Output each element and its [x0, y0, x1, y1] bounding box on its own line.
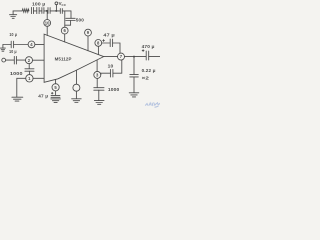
- capacitor 1000p plates: [94, 88, 104, 91]
- svg-text:7: 7: [120, 54, 123, 59]
- capacitor 10u (input 1) plates: [11, 41, 13, 48]
- svg-text:5: 5: [54, 85, 57, 90]
- wire (output to 0.22u): [133, 57, 135, 75]
- wire (rail to pin 10): [46, 11, 48, 20]
- wire (amp to pin 5): [55, 79, 57, 83]
- wire (pin4 to amp): [35, 43, 44, 45]
- wire (output to right edge): [149, 56, 160, 58]
- node (0.22u junction): [133, 56, 135, 58]
- pin 9: [85, 29, 92, 36]
- svg-text:470 μ: 470 μ: [142, 44, 155, 49]
- pin 7: [118, 53, 125, 60]
- svg-text:3: 3: [96, 73, 99, 78]
- pin 6: [61, 27, 68, 34]
- capacitor 100u plates: [31, 7, 33, 13]
- svg-text:10: 10: [108, 64, 114, 69]
- wire (10u to pin3): [101, 73, 111, 75]
- ground (pin5): [51, 99, 61, 103]
- capacitor 0.22u plates: [130, 74, 139, 77]
- svg-text:CC: CC: [62, 3, 67, 7]
- pin 8: [95, 40, 102, 47]
- wire (amp to pin 9): [87, 36, 89, 51]
- wire (1000p to ground): [98, 90, 100, 100]
- wire (ground to resistor): [13, 10, 22, 12]
- capacitor (rail pair C): [42, 8, 44, 14]
- svg-text:10: 10: [45, 21, 50, 26]
- Vcc terminal: [55, 2, 58, 11]
- wire (amp to pin 3): [96, 60, 98, 72]
- plus (47u pin5 polarity): [51, 92, 53, 94]
- ground (pin1): [12, 97, 23, 101]
- svg-text:6: 6: [63, 28, 66, 33]
- pin 2: [26, 57, 33, 64]
- handwriting (faint blue, bottom right): [146, 103, 160, 108]
- svg-text:9: 9: [87, 30, 90, 35]
- wire (pin6 to amp): [64, 34, 66, 42]
- pin 4: [28, 41, 35, 48]
- plus (470u polarity): [142, 50, 144, 52]
- node (pin10 junction): [46, 10, 48, 12]
- capacitor 10u (input 2) plates: [14, 56, 16, 64]
- svg-text:2: 2: [28, 58, 31, 63]
- wire (pin3 to 1000p): [96, 78, 98, 87]
- wire (0.22u to ground): [133, 77, 135, 93]
- capacitor 47u (pin5) plates: [51, 95, 60, 97]
- wire (pin10 to amp): [46, 26, 48, 35]
- svg-text:47 μ: 47 μ: [38, 93, 48, 98]
- capacitor (rail pair D): [48, 8, 50, 14]
- capacitor 10u plates: [110, 69, 113, 77]
- wire (47u to output node): [113, 43, 120, 53]
- capacitor (rail pair E): [60, 9, 62, 14]
- wire (to pin 2): [16, 59, 25, 61]
- svg-text:×2: ×2: [142, 75, 150, 80]
- capacitor (rail pair B): [37, 7, 39, 13]
- ground (input 1): [0, 45, 5, 52]
- pin (unnumbered): [73, 84, 80, 91]
- ground (blank pin): [72, 99, 82, 103]
- ground (0.22u): [129, 93, 139, 97]
- wire (pin5 to 47u): [55, 91, 57, 95]
- svg-text:1000: 1000: [10, 71, 23, 76]
- pin 5: [52, 84, 59, 91]
- wire (500p to pin6 net): [65, 21, 71, 26]
- ground (top-left supply filter): [10, 11, 17, 18]
- wire (amp to blank pin): [76, 70, 78, 84]
- wire (input 1): [3, 44, 11, 46]
- wire: [39, 10, 42, 12]
- svg-text:500: 500: [76, 18, 85, 23]
- wire (amp output): [104, 56, 118, 58]
- wire (pin2 to amp): [33, 59, 45, 61]
- capacitor 47u plates: [110, 39, 112, 47]
- wire (rail end, corner to 500p): [62, 11, 71, 18]
- wire (pin8 to 47u): [102, 42, 110, 44]
- wire (pin2 node down to 1000p): [28, 64, 30, 69]
- wire (amp to pin 8): [97, 46, 99, 54]
- ground (pin3): [94, 101, 104, 105]
- wire (blank pin to ground): [75, 91, 77, 98]
- svg-text:4: 4: [30, 42, 33, 47]
- svg-text:1: 1: [28, 76, 31, 81]
- wire (rail to pin 6): [64, 11, 66, 27]
- op-amp U1 (M5112P amplifier triangle): [44, 34, 104, 82]
- wire (output line): [125, 56, 146, 58]
- pin 3: [94, 71, 101, 78]
- svg-text:10 μ: 10 μ: [9, 32, 17, 37]
- wire: [34, 10, 37, 12]
- wire (to pin 4): [14, 44, 29, 46]
- capacitor 1000p (input) plates: [25, 69, 34, 71]
- plus (47u polarity): [103, 40, 105, 42]
- svg-text:1000: 1000: [108, 87, 120, 92]
- wire (input 2): [6, 59, 15, 61]
- capacitor 500p: [66, 18, 75, 20]
- svg-text:0.22 μ: 0.22 μ: [142, 68, 156, 73]
- wire (1000p to pin 1): [28, 71, 30, 74]
- wire: [44, 10, 48, 12]
- svg-text:M5112P: M5112P: [55, 57, 72, 62]
- terminal (input 2): [2, 58, 6, 62]
- capacitor 470u plates: [146, 51, 149, 60]
- pin 10: [44, 20, 51, 27]
- svg-text:47 μ: 47 μ: [103, 32, 115, 37]
- svg-text:10 μ: 10 μ: [9, 49, 17, 54]
- resistor (supply filter): [22, 9, 29, 12]
- wire (pin7 down to 10u feedback): [113, 60, 122, 73]
- svg-text:100 μ: 100 μ: [32, 2, 46, 7]
- pin 1: [26, 75, 33, 82]
- wire: [50, 10, 60, 12]
- wire (pin1 to ground): [17, 78, 26, 97]
- node (Vcc junction): [55, 10, 57, 12]
- wire (pin1 to amp): [33, 77, 44, 79]
- svg-text:8: 8: [97, 41, 100, 46]
